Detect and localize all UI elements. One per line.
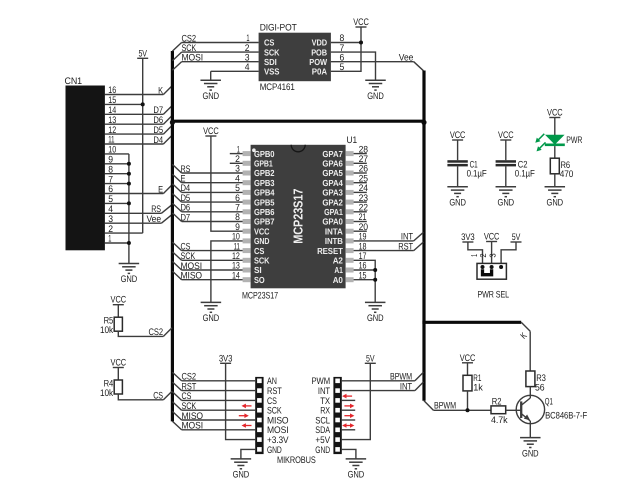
svg-text:D4: D4: [153, 135, 163, 146]
svg-text:PWR SEL: PWR SEL: [478, 290, 510, 301]
svg-text:3: 3: [488, 253, 498, 258]
svg-text:GPB6: GPB6: [254, 207, 275, 217]
svg-text:Vee: Vee: [399, 53, 414, 64]
svg-text:MCP23S17: MCP23S17: [291, 189, 306, 244]
svg-text:A0: A0: [333, 275, 343, 285]
svg-text:0.1µF: 0.1µF: [467, 169, 487, 180]
svg-text:1k: 1k: [473, 383, 483, 394]
svg-text:Q1: Q1: [545, 396, 553, 407]
svg-text:CS: CS: [254, 246, 264, 256]
svg-text:SI: SI: [254, 265, 262, 275]
svg-text:INTA: INTA: [325, 226, 344, 236]
svg-text:MCP23S17: MCP23S17: [242, 290, 278, 301]
svg-text:CS2: CS2: [149, 327, 164, 338]
svg-text:SO: SO: [254, 275, 265, 285]
svg-text:10k: 10k: [100, 325, 113, 336]
svg-text:INTB: INTB: [325, 236, 343, 246]
svg-text:GND: GND: [367, 313, 384, 324]
svg-text:POW: POW: [309, 57, 327, 67]
svg-text:DIGI-POT: DIGI-POT: [260, 22, 297, 33]
svg-text:RST: RST: [398, 241, 413, 252]
svg-text:GPB5: GPB5: [254, 197, 275, 207]
svg-text:GPB2: GPB2: [254, 168, 275, 178]
svg-text:MOSI: MOSI: [182, 421, 204, 432]
svg-text:GND: GND: [367, 91, 384, 102]
svg-text:GND: GND: [498, 198, 515, 209]
svg-text:R2: R2: [492, 397, 502, 408]
svg-text:D7: D7: [181, 212, 191, 223]
svg-text:P0A: P0A: [312, 67, 328, 77]
svg-text:VCC: VCC: [254, 226, 270, 236]
svg-text:10k: 10k: [100, 388, 113, 399]
svg-text:INT: INT: [400, 381, 412, 392]
svg-text:GPB1: GPB1: [254, 159, 273, 169]
svg-text:CS: CS: [153, 391, 163, 402]
svg-text:MIKROBUS: MIKROBUS: [277, 455, 316, 466]
svg-text:GPB0: GPB0: [254, 149, 275, 159]
svg-text:470: 470: [560, 169, 574, 180]
svg-text:POB: POB: [311, 47, 327, 57]
svg-text:BPWM: BPWM: [434, 401, 456, 412]
svg-text:GND: GND: [315, 445, 330, 456]
svg-text:Vee: Vee: [147, 214, 162, 225]
svg-text:4.7k: 4.7k: [491, 415, 508, 426]
svg-text:U1: U1: [347, 135, 358, 146]
svg-text:GPA7: GPA7: [322, 149, 343, 159]
svg-text:GND: GND: [121, 274, 138, 285]
svg-text:MCP4161: MCP4161: [260, 82, 295, 93]
svg-text:MISO: MISO: [181, 271, 203, 282]
svg-text:GND: GND: [348, 470, 365, 481]
svg-text:GND: GND: [449, 198, 466, 209]
svg-text:VDD: VDD: [312, 38, 327, 48]
svg-text:SCK: SCK: [254, 256, 270, 266]
svg-text:SCK: SCK: [264, 47, 280, 57]
svg-text:VSS: VSS: [264, 67, 280, 77]
svg-text:GND: GND: [233, 470, 250, 481]
svg-text:CN1: CN1: [65, 76, 83, 87]
svg-text:GND: GND: [522, 448, 539, 459]
svg-text:GND: GND: [254, 236, 269, 246]
svg-text:PWR: PWR: [566, 135, 582, 146]
svg-text:GPA5: GPA5: [322, 168, 343, 178]
svg-text:BC846B-7-F: BC846B-7-F: [545, 411, 587, 422]
svg-text:E: E: [158, 184, 163, 195]
svg-text:GND: GND: [203, 313, 220, 324]
svg-text:0.1µF: 0.1µF: [515, 169, 535, 180]
svg-text:K: K: [158, 85, 163, 96]
svg-text:GPA6: GPA6: [322, 159, 343, 169]
svg-text:GPA0: GPA0: [322, 217, 343, 227]
svg-text:GPA3: GPA3: [322, 188, 343, 198]
svg-text:GPB3: GPB3: [254, 178, 275, 188]
svg-text:GPB4: GPB4: [254, 188, 275, 198]
svg-text:GND: GND: [547, 198, 564, 209]
svg-text:GPA1: GPA1: [324, 207, 343, 217]
svg-text:2: 2: [478, 253, 488, 258]
svg-text:GPA2: GPA2: [322, 197, 343, 207]
svg-text:A1: A1: [334, 265, 343, 275]
svg-text:RESET: RESET: [317, 246, 343, 256]
svg-text:56: 56: [535, 383, 545, 394]
svg-text:GND: GND: [202, 91, 219, 102]
svg-text:MOSI: MOSI: [182, 53, 204, 64]
svg-text:SDI: SDI: [264, 57, 277, 67]
svg-text:A2: A2: [333, 256, 343, 266]
svg-text:GPA4: GPA4: [322, 178, 343, 188]
svg-text:GPB7: GPB7: [254, 217, 275, 227]
svg-text:CS: CS: [264, 38, 274, 48]
